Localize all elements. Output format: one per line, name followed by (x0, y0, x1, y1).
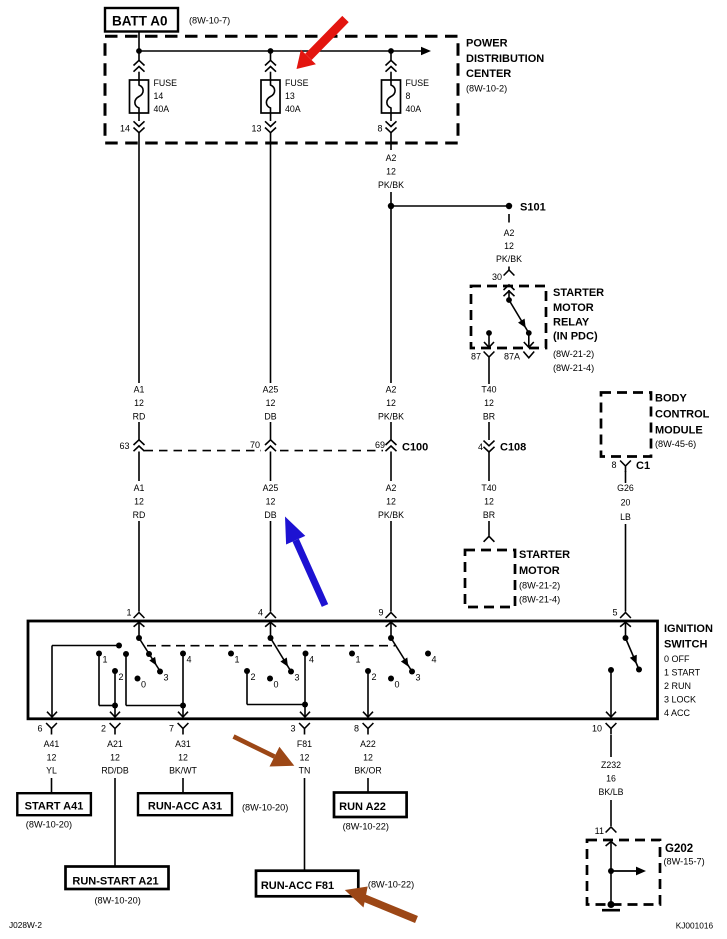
svg-text:PK/BK: PK/BK (378, 180, 404, 190)
svg-text:12: 12 (300, 753, 310, 763)
svg-text:CENTER: CENTER (466, 68, 511, 80)
svg-text:1: 1 (103, 655, 108, 665)
svg-text:C1: C1 (636, 460, 650, 472)
svg-text:F81: F81 (297, 739, 312, 749)
svg-text:0 OFF: 0 OFF (664, 654, 690, 664)
svg-text:(8W-45-6): (8W-45-6) (655, 439, 696, 449)
svg-text:YL: YL (46, 766, 57, 776)
svg-text:(8W-10-7): (8W-10-7) (189, 16, 230, 26)
svg-text:14: 14 (120, 124, 130, 134)
svg-text:G26: G26 (617, 483, 634, 493)
svg-text:4: 4 (432, 655, 437, 665)
svg-text:START A41: START A41 (25, 801, 84, 813)
svg-text:40A: 40A (285, 104, 301, 114)
svg-text:2: 2 (251, 672, 256, 682)
svg-text:DB: DB (264, 412, 276, 422)
svg-text:IGNITION: IGNITION (664, 623, 713, 635)
svg-text:0: 0 (274, 680, 279, 690)
svg-text:5: 5 (612, 608, 617, 618)
svg-text:A22: A22 (360, 739, 376, 749)
svg-text:J028W-2: J028W-2 (9, 920, 42, 930)
svg-text:12: 12 (504, 241, 514, 251)
svg-text:RD: RD (133, 510, 146, 520)
svg-text:1: 1 (126, 608, 131, 618)
svg-text:4: 4 (187, 655, 192, 665)
svg-text:12: 12 (386, 497, 396, 507)
svg-text:2: 2 (119, 672, 124, 682)
svg-text:8: 8 (377, 124, 382, 134)
svg-text:12: 12 (386, 167, 396, 177)
svg-text:69: 69 (375, 440, 385, 450)
svg-text:9: 9 (378, 608, 383, 618)
svg-text:87: 87 (471, 352, 481, 362)
svg-text:(8W-10-20): (8W-10-20) (242, 803, 288, 813)
svg-text:12: 12 (47, 753, 57, 763)
svg-text:(8W-10-2): (8W-10-2) (466, 84, 507, 94)
svg-text:BODY: BODY (655, 393, 687, 405)
svg-text:11: 11 (595, 826, 604, 836)
svg-text:12: 12 (386, 398, 396, 408)
svg-text:FUSE: FUSE (285, 78, 309, 88)
svg-text:3: 3 (164, 673, 169, 683)
svg-text:PK/BK: PK/BK (378, 412, 404, 422)
svg-text:A41: A41 (44, 739, 60, 749)
svg-text:12: 12 (134, 398, 144, 408)
svg-text:T40: T40 (481, 385, 496, 395)
svg-text:MODULE: MODULE (655, 425, 703, 437)
svg-text:A1: A1 (134, 483, 145, 493)
svg-text:0: 0 (395, 680, 400, 690)
svg-text:A2: A2 (386, 483, 397, 493)
svg-text:40A: 40A (406, 104, 422, 114)
svg-text:30: 30 (492, 272, 502, 282)
svg-text:(8W-21-2): (8W-21-2) (553, 349, 594, 359)
svg-text:DISTRIBUTION: DISTRIBUTION (466, 53, 544, 65)
svg-text:POWER: POWER (466, 38, 508, 50)
svg-text:12: 12 (484, 398, 494, 408)
svg-text:1: 1 (356, 655, 361, 665)
svg-text:KJ001016: KJ001016 (676, 921, 714, 931)
svg-text:13: 13 (251, 124, 261, 134)
svg-text:SWITCH: SWITCH (664, 639, 707, 651)
svg-text:3: 3 (290, 724, 295, 734)
svg-text:MOTOR: MOTOR (553, 302, 594, 314)
svg-text:RUN-ACC F81: RUN-ACC F81 (261, 880, 334, 892)
svg-text:12: 12 (484, 497, 494, 507)
svg-text:A25: A25 (263, 385, 279, 395)
svg-text:PK/BK: PK/BK (378, 510, 404, 520)
svg-text:DB: DB (264, 510, 276, 520)
svg-text:BK/OR: BK/OR (354, 766, 381, 776)
svg-text:RD: RD (133, 412, 146, 422)
svg-text:2: 2 (101, 724, 106, 734)
svg-text:T40: T40 (481, 483, 496, 493)
svg-text:(8W-10-22): (8W-10-22) (368, 880, 414, 890)
svg-text:A2: A2 (386, 385, 397, 395)
svg-text:G202: G202 (665, 843, 693, 855)
svg-text:3: 3 (416, 673, 421, 683)
svg-text:RELAY: RELAY (553, 317, 590, 329)
svg-text:(8W-21-4): (8W-21-4) (519, 595, 560, 605)
svg-text:3 LOCK: 3 LOCK (664, 695, 696, 705)
svg-text:A2: A2 (386, 153, 397, 163)
svg-text:(IN PDC): (IN PDC) (553, 331, 598, 343)
svg-text:(8W-15-7): (8W-15-7) (664, 857, 705, 867)
svg-text:3: 3 (295, 673, 300, 683)
svg-text:A25: A25 (263, 483, 279, 493)
svg-text:1 START: 1 START (664, 667, 701, 677)
svg-text:A1: A1 (134, 385, 145, 395)
svg-text:BK/WT: BK/WT (169, 766, 197, 776)
svg-text:RUN-ACC A31: RUN-ACC A31 (148, 801, 222, 813)
svg-text:TN: TN (299, 766, 311, 776)
svg-text:20: 20 (621, 498, 631, 508)
svg-text:C108: C108 (500, 442, 526, 454)
svg-text:4: 4 (478, 442, 483, 452)
svg-text:12: 12 (178, 753, 188, 763)
svg-text:(8W-10-22): (8W-10-22) (343, 822, 389, 832)
svg-text:87A: 87A (504, 352, 520, 362)
svg-text:S101: S101 (520, 202, 546, 214)
svg-text:0: 0 (141, 680, 146, 690)
svg-text:4 ACC: 4 ACC (664, 708, 691, 718)
svg-text:RD/DB: RD/DB (101, 766, 129, 776)
svg-text:12: 12 (110, 753, 120, 763)
svg-text:BATT A0: BATT A0 (112, 14, 168, 29)
svg-text:A31: A31 (175, 739, 191, 749)
svg-text:14: 14 (154, 91, 164, 101)
svg-text:10: 10 (592, 724, 602, 734)
svg-text:1: 1 (235, 655, 240, 665)
svg-text:A21: A21 (107, 739, 123, 749)
svg-text:63: 63 (119, 441, 129, 451)
svg-text:4: 4 (309, 655, 314, 665)
svg-text:13: 13 (285, 91, 295, 101)
svg-text:(8W-21-4): (8W-21-4) (553, 363, 594, 373)
svg-text:BK/LB: BK/LB (599, 787, 624, 797)
svg-text:2: 2 (372, 672, 377, 682)
svg-text:FUSE: FUSE (154, 78, 178, 88)
svg-text:FUSE: FUSE (406, 78, 430, 88)
svg-text:70: 70 (250, 440, 260, 450)
svg-text:12: 12 (134, 497, 144, 507)
svg-text:(8W-21-2): (8W-21-2) (519, 581, 560, 591)
svg-text:12: 12 (266, 398, 276, 408)
svg-text:16: 16 (606, 774, 616, 784)
svg-text:RUN A22: RUN A22 (339, 801, 386, 813)
svg-text:40A: 40A (154, 104, 170, 114)
svg-text:12: 12 (363, 753, 373, 763)
svg-text:(8W-10-20): (8W-10-20) (26, 820, 72, 830)
svg-text:2 RUN: 2 RUN (664, 681, 691, 691)
svg-text:(8W-10-20): (8W-10-20) (95, 896, 141, 906)
svg-text:STARTER: STARTER (519, 549, 570, 561)
svg-text:4: 4 (258, 608, 263, 618)
svg-text:8: 8 (354, 724, 359, 734)
svg-text:MOTOR: MOTOR (519, 565, 560, 577)
svg-text:Z232: Z232 (601, 760, 621, 770)
svg-text:12: 12 (266, 497, 276, 507)
svg-text:C100: C100 (402, 442, 428, 454)
svg-text:A2: A2 (504, 228, 515, 238)
svg-text:6: 6 (37, 724, 42, 734)
svg-text:STARTER: STARTER (553, 287, 604, 299)
svg-text:8: 8 (406, 91, 411, 101)
svg-text:PK/BK: PK/BK (496, 254, 522, 264)
svg-text:8: 8 (611, 460, 616, 470)
svg-text:BR: BR (483, 510, 495, 520)
svg-text:BR: BR (483, 412, 495, 422)
svg-text:7: 7 (169, 724, 174, 734)
svg-text:LB: LB (620, 512, 631, 522)
svg-text:CONTROL: CONTROL (655, 409, 710, 421)
svg-text:RUN-START A21: RUN-START A21 (72, 876, 158, 888)
